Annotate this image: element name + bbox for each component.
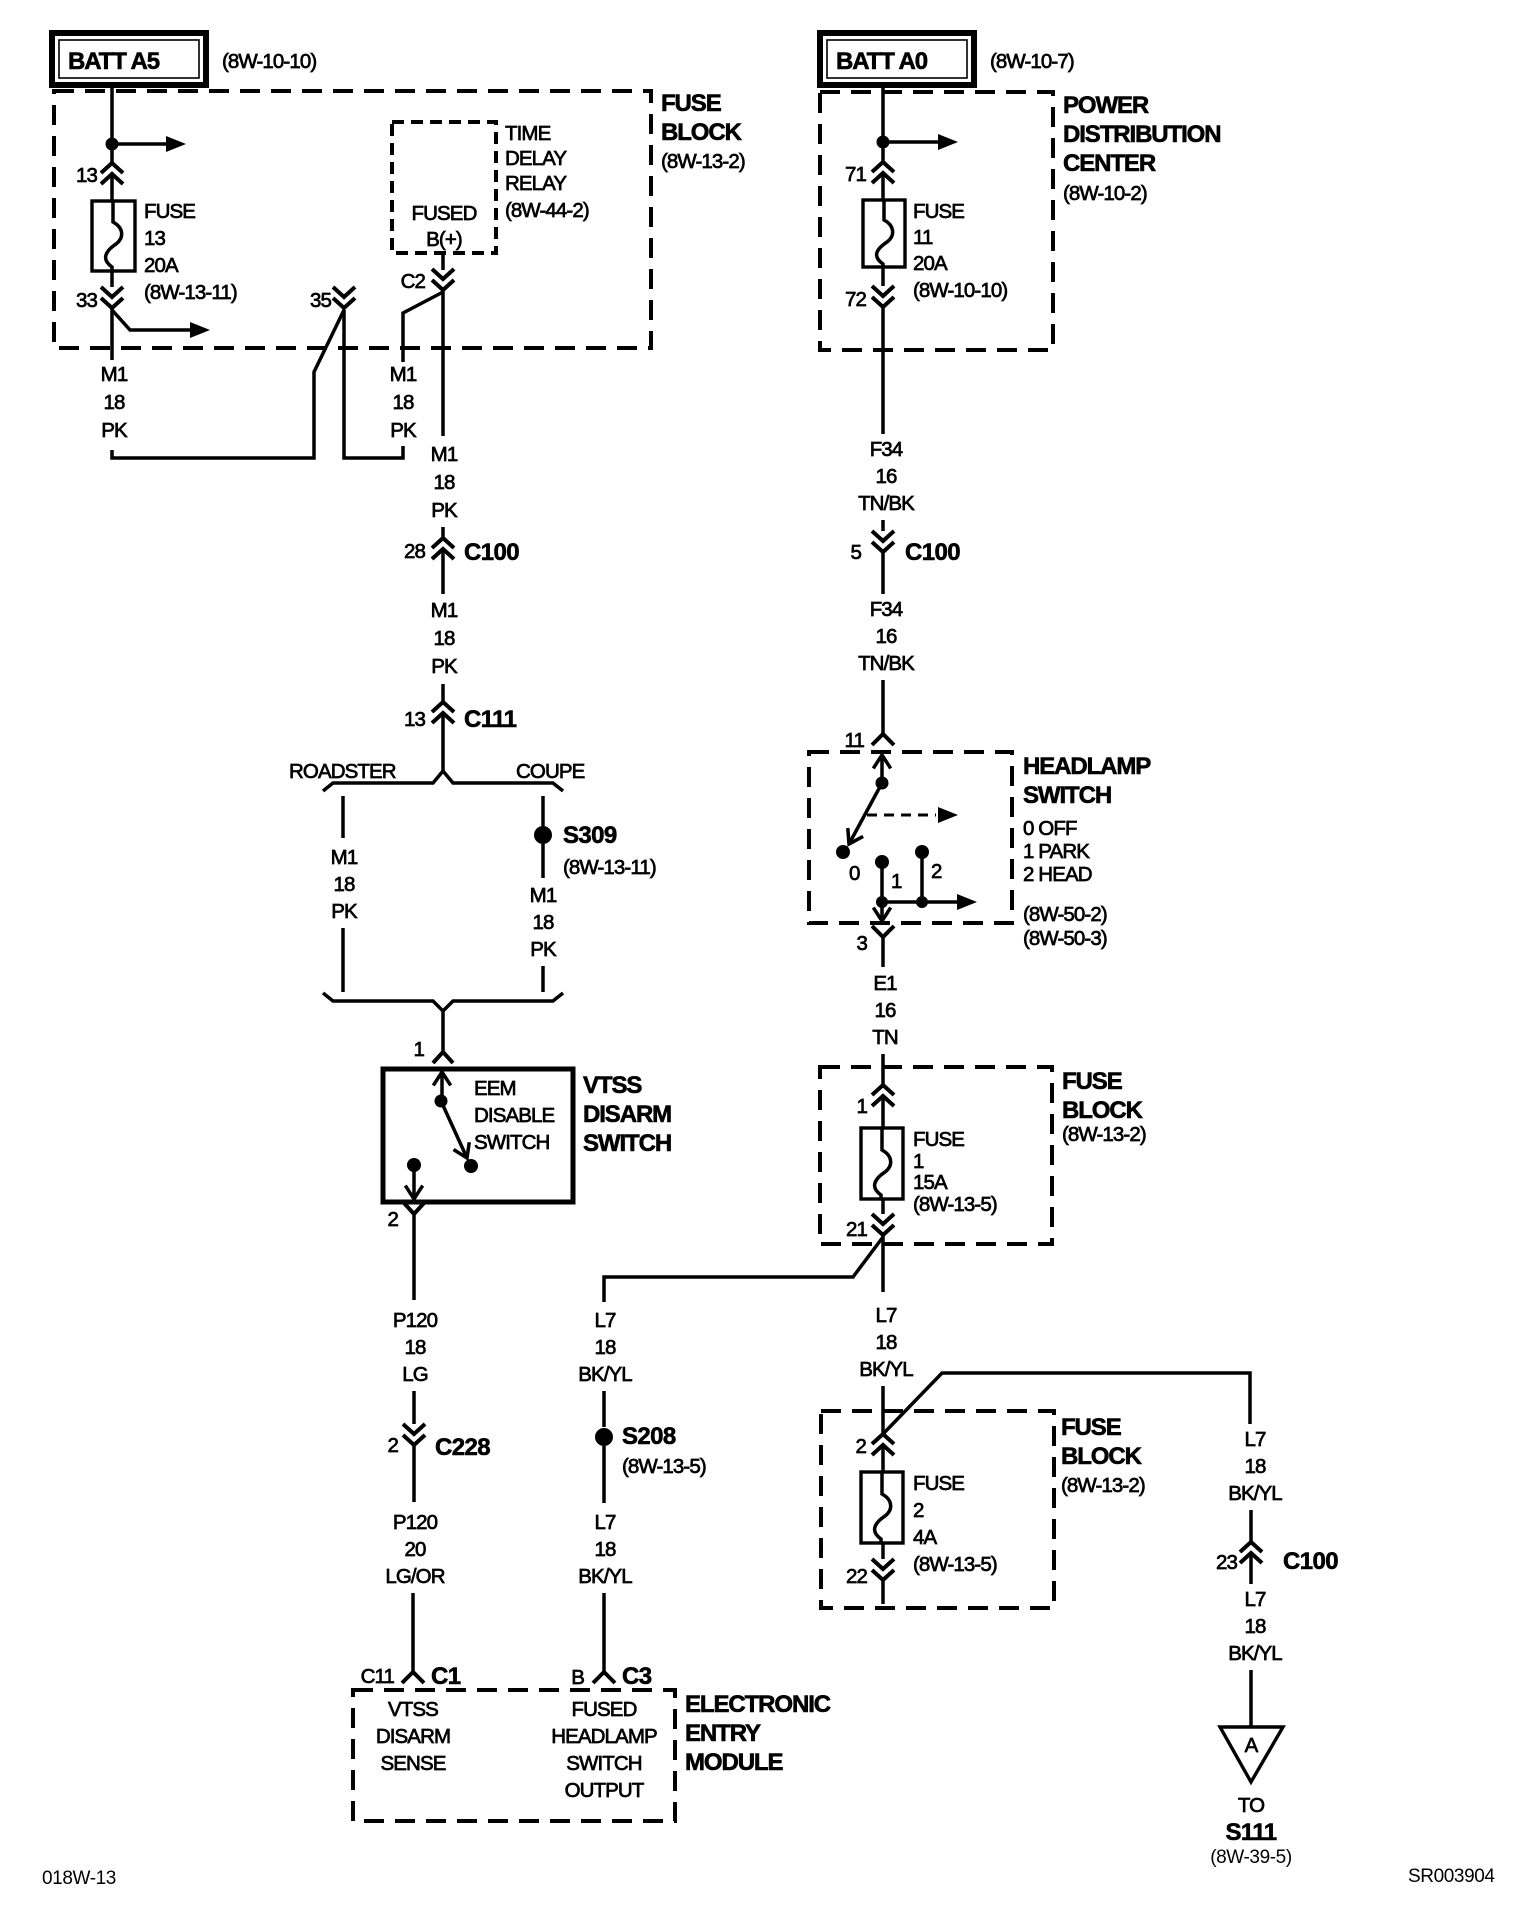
- svg-text:5: 5: [850, 541, 861, 564]
- fuse 2 value label: [913, 1472, 997, 1576]
- svg-text:ENTRY: ENTRY: [685, 1720, 761, 1747]
- pin 13 connector (fuse block cavity): [76, 163, 123, 187]
- wire label F34 16 TN/BK (upper): [858, 438, 915, 515]
- wire label L7 18 BK/YL (C100 to A): [1228, 1588, 1282, 1665]
- svg-text:23: 23: [1216, 1551, 1238, 1574]
- wire label M1 18 PK (roadster branch): [331, 846, 358, 923]
- svg-text:0: 0: [849, 862, 860, 885]
- svg-text:18: 18: [1244, 1615, 1266, 1638]
- svg-text:SWITCH: SWITCH: [474, 1131, 550, 1154]
- svg-text:TN: TN: [872, 1026, 898, 1049]
- split brace: [323, 771, 563, 791]
- fuse 11 20A: [863, 200, 905, 267]
- ROADSTER label: [289, 760, 396, 783]
- roadster branch wire M1 18 PK: [341, 796, 345, 838]
- wire into fuse 11: [881, 175, 885, 200]
- power distribution center dashed box: [820, 92, 1053, 350]
- svg-text:21: 21: [846, 1218, 868, 1241]
- svg-text:18: 18: [404, 1336, 426, 1359]
- fuse 13 20A: [92, 201, 135, 271]
- wire pin 21 down L7 18 BK/YL: [859, 1304, 913, 1381]
- svg-text:(8W-50-3): (8W-50-3): [1023, 927, 1107, 950]
- connector C111 (pin 13): [404, 702, 517, 733]
- svg-text:71: 71: [845, 163, 867, 186]
- svg-text:11: 11: [845, 729, 865, 752]
- svg-text:L7: L7: [594, 1511, 616, 1534]
- wire into C228: [412, 1391, 416, 1424]
- svg-text:2 HEAD: 2 HEAD: [1023, 863, 1092, 886]
- svg-text:18: 18: [875, 1331, 897, 1354]
- pin C11 connector fork at C1: [361, 1663, 461, 1690]
- svg-text:M1: M1: [431, 599, 458, 622]
- svg-text:S208: S208: [622, 1423, 676, 1450]
- svg-text:C2: C2: [401, 270, 426, 293]
- svg-text:(8W-13-5): (8W-13-5): [622, 1455, 706, 1478]
- wire label P120 20 LG/OR: [385, 1511, 444, 1588]
- svg-text:SWITCH: SWITCH: [583, 1130, 671, 1157]
- svg-text:DISTRIBUTION: DISTRIBUTION: [1063, 121, 1220, 148]
- svg-text:72: 72: [845, 288, 867, 311]
- svg-text:F34: F34: [870, 598, 903, 621]
- wire from BATT A0 down: [881, 85, 885, 161]
- MIDDLE-LEFT-SECTION: [289, 527, 671, 1672]
- svg-text:PK: PK: [331, 900, 358, 923]
- svg-text:C228: C228: [435, 1434, 490, 1461]
- svg-text:2: 2: [855, 1435, 866, 1458]
- TO S111 label: [1210, 1794, 1292, 1868]
- svg-text:18: 18: [103, 391, 125, 414]
- pin 1 connector: [856, 1085, 894, 1118]
- switch blade with arrow: [441, 1101, 469, 1158]
- wire label L7 18 BK/YL (right branch upper): [1228, 1428, 1282, 1505]
- wire S208 to C3 L7 18 BK/YL: [602, 1446, 606, 1503]
- connector C100 (pin 5): [850, 531, 960, 566]
- svg-text:FUSE: FUSE: [1062, 1068, 1123, 1095]
- wire into fuse 2: [881, 1447, 885, 1472]
- svg-text:20: 20: [404, 1538, 426, 1561]
- svg-text:B(+): B(+): [426, 228, 462, 251]
- wire into fuse 13: [110, 176, 114, 201]
- pin 35 connector: [310, 287, 355, 312]
- battery feed BATT A5 box: [52, 33, 206, 85]
- svg-text:ROADSTER: ROADSTER: [289, 760, 396, 783]
- svg-text:(8W-13-2): (8W-13-2): [1062, 1123, 1146, 1146]
- contact 2 wire to output: [920, 852, 924, 902]
- svg-text:TN/BK: TN/BK: [858, 492, 915, 515]
- svg-text:18: 18: [594, 1336, 616, 1359]
- RIGHT-MID-SECTION: [578, 752, 1151, 1672]
- svg-text:11: 11: [913, 226, 933, 249]
- entry arrow pin 11: [873, 755, 890, 777]
- svg-text:C100: C100: [905, 539, 960, 566]
- wire to off-page connector A: [1249, 1670, 1253, 1727]
- switch contact lower left with exit arrow: [405, 1158, 422, 1199]
- headlamp switch label: [1023, 753, 1151, 809]
- svg-text:BK/YL: BK/YL: [578, 1363, 632, 1386]
- wire fuse 13 to pin 33: [110, 271, 114, 287]
- svg-text:FUSE: FUSE: [913, 1472, 964, 1495]
- svg-text:(8W-13-5): (8W-13-5): [913, 1193, 997, 1216]
- svg-text:18: 18: [1244, 1455, 1266, 1478]
- svg-text:(8W-50-2): (8W-50-2): [1023, 903, 1107, 926]
- pin 71 connector: [845, 162, 894, 186]
- wire label L7 18 BK/YL (right branch lower): [1249, 1555, 1253, 1584]
- svg-text:18: 18: [594, 1538, 616, 1561]
- svg-text:1: 1: [856, 1095, 867, 1118]
- svg-text:EEM: EEM: [474, 1077, 516, 1100]
- svg-text:P120: P120: [393, 1309, 438, 1332]
- svg-text:PK: PK: [530, 938, 557, 961]
- svg-text:A: A: [1245, 1734, 1259, 1757]
- svg-text:(8W-10-2): (8W-10-2): [1063, 182, 1147, 205]
- switch contact upper: [435, 1095, 448, 1108]
- wire pin 21 straight down: [881, 1235, 885, 1292]
- coupe branch wire M1 18 PK: [541, 844, 545, 878]
- fuse 13 value label: [144, 200, 237, 304]
- svg-text:(8W-10-10): (8W-10-10): [913, 279, 1007, 302]
- svg-text:DISARM: DISARM: [583, 1101, 671, 1128]
- VTSS disarm switch box: [383, 1069, 573, 1202]
- svg-text:HEADLAMP: HEADLAMP: [551, 1725, 657, 1748]
- pin 2 connector fork: [387, 1203, 424, 1231]
- svg-text:35: 35: [310, 289, 332, 312]
- svg-text:FUSED: FUSED: [572, 1698, 637, 1721]
- EEM DISABLE SWITCH label: [474, 1077, 555, 1154]
- time delay relay label: [505, 122, 589, 222]
- svg-text:2: 2: [913, 1499, 924, 1522]
- svg-text:BLOCK: BLOCK: [1061, 1443, 1143, 1470]
- off-page connector A to S111: [1220, 1727, 1283, 1782]
- svg-text:LG/OR: LG/OR: [385, 1565, 444, 1588]
- svg-text:FUSE: FUSE: [144, 200, 195, 223]
- VTSS switch internal entry arrow: [433, 1072, 450, 1095]
- wire label E1 16 TN: [872, 972, 898, 1049]
- svg-text:TO: TO: [1238, 1794, 1264, 1817]
- BATT A5 reference label: [222, 50, 316, 73]
- svg-text:C1: C1: [431, 1663, 461, 1690]
- headlamp switch position legend: [1023, 817, 1092, 886]
- svg-text:VTSS: VTSS: [583, 1072, 642, 1099]
- coupe branch wire: [541, 796, 545, 826]
- wire pin 72 down F34 16 TN/BK: [881, 307, 885, 434]
- wire label L7 18 BK/YL (S208 to C3): [578, 1511, 632, 1588]
- wire C228 down P120 20 LG/OR: [412, 1445, 416, 1502]
- svg-text:BLOCK: BLOCK: [661, 119, 743, 146]
- svg-text:HEADLAMP: HEADLAMP: [1023, 753, 1151, 780]
- svg-text:C100: C100: [464, 539, 519, 566]
- wire to pin C11 of C1: [411, 1593, 415, 1672]
- power distribution center label: [1063, 92, 1220, 205]
- switch wiper blade with arrow: [848, 783, 882, 844]
- svg-text:018W-13: 018W-13: [42, 1868, 116, 1889]
- wire into fuse block pin 2: [881, 1386, 885, 1433]
- connector C100 (pin 28): [404, 538, 519, 566]
- BOTTOM-LEFT-SECTION: [353, 1663, 831, 1821]
- svg-text:FUSED: FUSED: [412, 202, 477, 225]
- svg-text:M1: M1: [390, 363, 417, 386]
- RIGHT-TOP-SECTION: [820, 33, 1220, 752]
- svg-text:0 OFF: 0 OFF: [1023, 817, 1077, 840]
- fuse block (left) label: [661, 90, 745, 173]
- svg-text:FUSE: FUSE: [913, 1128, 964, 1151]
- svg-text:PK: PK: [431, 655, 458, 678]
- fuse block (left) dashed box: [54, 91, 651, 348]
- svg-text:TN/BK: TN/BK: [858, 652, 915, 675]
- wire label M1 18 PK (C100 to C111): [431, 599, 458, 678]
- svg-text:C100: C100: [1283, 1548, 1338, 1575]
- pin B connector fork at C3: [571, 1663, 652, 1690]
- svg-text:2: 2: [387, 1208, 398, 1231]
- svg-text:BATT A0: BATT A0: [836, 48, 928, 75]
- svg-text:4A: 4A: [913, 1526, 938, 1549]
- contact 0: [836, 845, 860, 885]
- wire M1 18 PK from pin 33 down and over: [110, 308, 114, 360]
- wire label M1 18 PK (C2 wire): [431, 443, 458, 522]
- svg-text:33: 33: [76, 289, 98, 312]
- svg-text:(8W-10-10): (8W-10-10): [222, 50, 316, 73]
- wire to headlamp switch pin 11: [881, 680, 885, 734]
- svg-text:VTSS: VTSS: [388, 1698, 438, 1721]
- svg-text:(8W-39-5): (8W-39-5): [1210, 1847, 1292, 1868]
- svg-text:SWITCH: SWITCH: [566, 1752, 642, 1775]
- fuse block (right) label: [1062, 1068, 1146, 1146]
- svg-text:16: 16: [875, 465, 897, 488]
- wire to pin B of C3: [602, 1593, 606, 1672]
- svg-text:1 PARK: 1 PARK: [1023, 840, 1090, 863]
- svg-text:P120: P120: [393, 1511, 438, 1534]
- fuse block (bottom) label: [1061, 1414, 1145, 1497]
- svg-text:POWER: POWER: [1063, 92, 1149, 119]
- wire label L7 18 BK/YL (left branch): [578, 1309, 632, 1386]
- svg-text:FUSE: FUSE: [661, 90, 722, 117]
- svg-text:BK/YL: BK/YL: [578, 1565, 632, 1588]
- LEFT-TOP-SECTION: [52, 33, 745, 522]
- headlamp switch dashed box: [809, 752, 1012, 923]
- VTSS DISARM SWITCH label: [583, 1072, 671, 1157]
- svg-text:13: 13: [144, 227, 166, 250]
- svg-text:ELECTRONIC: ELECTRONIC: [685, 1691, 831, 1718]
- svg-text:M1: M1: [431, 443, 458, 466]
- fuse block (right) dashed box: [820, 1067, 1052, 1244]
- svg-text:DISARM: DISARM: [376, 1725, 450, 1748]
- wire label M1 18 PK (pin 33 wire): [101, 363, 128, 442]
- svg-text:BATT A5: BATT A5: [68, 48, 160, 75]
- pin 1 connector fork: [413, 1038, 453, 1063]
- svg-text:(8W-44-2): (8W-44-2): [505, 199, 589, 222]
- wire label M1 18 PK (pin 35 wire): [390, 363, 417, 442]
- RIGHT-BOTTOM-SECTION: [821, 1304, 1338, 1868]
- svg-text:18: 18: [433, 627, 455, 650]
- wire brace to VTSS switch pin 1: [441, 1011, 445, 1053]
- node junction with arrow (feed to other circuits): [877, 134, 959, 150]
- arrow branch from pin 33 (feed to other circuits): [112, 310, 210, 338]
- svg-text:SENSE: SENSE: [381, 1752, 446, 1775]
- svg-text:C11: C11: [361, 1665, 395, 1688]
- svg-text:BK/YL: BK/YL: [859, 1358, 913, 1381]
- pin 3 connector fork: [856, 926, 894, 955]
- svg-text:28: 28: [404, 540, 426, 563]
- exit arrow pin 3: [873, 902, 890, 921]
- node junction with arrow (feed to other circuits): [106, 136, 187, 152]
- svg-text:RELAY: RELAY: [505, 172, 567, 195]
- svg-text:13: 13: [76, 164, 98, 187]
- svg-text:BK/YL: BK/YL: [1228, 1642, 1282, 1665]
- svg-text:1: 1: [891, 870, 902, 893]
- roadster branch wire lower segment: [341, 928, 345, 992]
- wire C100 to headlamp switch F34 16 TN/BK: [881, 552, 885, 594]
- svg-text:SR003904: SR003904: [1408, 1866, 1495, 1887]
- wire pin 2 down P120 18 LG: [412, 1214, 416, 1300]
- pin 2 connector: [855, 1434, 894, 1458]
- time delay relay FUSED B(+) pin label: [412, 202, 477, 251]
- wire label M1 18 PK (coupe branch): [530, 884, 557, 961]
- pin 22 connector: [846, 1559, 894, 1588]
- contact 1: [875, 855, 902, 893]
- FUSED HEADLAMP SWITCH OUTPUT pin label: [551, 1698, 657, 1802]
- svg-text:2: 2: [931, 860, 942, 883]
- svg-text:PK: PK: [431, 499, 458, 522]
- svg-text:L7: L7: [1244, 1588, 1266, 1611]
- wire from BATT A5 down: [110, 85, 114, 162]
- svg-text:L7: L7: [594, 1309, 616, 1332]
- battery feed BATT A0 box: [820, 33, 974, 85]
- wire fuse 2 to pin 22: [881, 1543, 885, 1559]
- svg-text:L7: L7: [875, 1304, 897, 1327]
- pin 72 connector: [845, 286, 894, 311]
- wire label P120 18 LG: [393, 1309, 438, 1386]
- svg-text:LG: LG: [402, 1363, 428, 1386]
- wire into fuse block pin 1: [881, 1054, 885, 1085]
- fuse 11 value label: [913, 200, 1007, 302]
- wire into splice S208: [602, 1391, 606, 1427]
- wire pin 3 down E1 16 TN: [881, 954, 885, 967]
- connector C2: [401, 269, 454, 293]
- branch wire to C100 pin 23: [884, 1373, 1250, 1433]
- wire into C111: [441, 684, 445, 701]
- svg-text:18: 18: [392, 391, 414, 414]
- svg-text:(8W-13-11): (8W-13-11): [563, 856, 656, 879]
- svg-text:SWITCH: SWITCH: [1023, 782, 1111, 809]
- svg-text:20A: 20A: [144, 254, 179, 277]
- connector C100 (pin 23): [1216, 1542, 1338, 1575]
- svg-text:BLOCK: BLOCK: [1062, 1097, 1144, 1124]
- svg-text:2: 2: [387, 1434, 398, 1457]
- switch common contact: [876, 777, 889, 790]
- svg-text:18: 18: [333, 873, 355, 896]
- electronic entry module dashed box: [353, 1690, 675, 1821]
- svg-text:M1: M1: [331, 846, 358, 869]
- BATT A0 reference label: [990, 50, 1074, 73]
- wire relay to C2: [441, 253, 445, 270]
- svg-text:18: 18: [433, 471, 455, 494]
- wire fuse 1 to pin 21: [881, 1199, 885, 1214]
- svg-text:BK/YL: BK/YL: [1228, 1482, 1282, 1505]
- svg-text:COUPE: COUPE: [516, 760, 585, 783]
- svg-text:16: 16: [874, 999, 896, 1022]
- svg-text:CENTER: CENTER: [1063, 150, 1156, 177]
- svg-text:20A: 20A: [913, 252, 948, 275]
- output bus with arrow: [876, 894, 977, 910]
- pin 33 connector: [76, 287, 123, 312]
- wire from C2 down: [441, 290, 445, 436]
- fuse 2 4A: [861, 1472, 903, 1543]
- svg-text:(8W-13-2): (8W-13-2): [1061, 1474, 1145, 1497]
- ELECTRONIC ENTRY MODULE label: [685, 1691, 831, 1776]
- pin 21 connector: [846, 1214, 894, 1241]
- svg-text:16: 16: [875, 625, 897, 648]
- svg-text:OUTPUT: OUTPUT: [565, 1779, 645, 1802]
- wire M1 18 PK from pin 35 down and over to C2: [344, 292, 443, 458]
- svg-text:MODULE: MODULE: [685, 1749, 783, 1776]
- wire into C100 pin 5: [881, 520, 885, 531]
- wire to connector C100: [441, 527, 445, 539]
- svg-text:22: 22: [846, 1565, 868, 1588]
- wire into fuse 1: [881, 1098, 885, 1128]
- time delay relay dashed box: [392, 122, 496, 253]
- svg-text:C111: C111: [464, 706, 517, 733]
- splice S208: [595, 1423, 706, 1478]
- COUPE label: [516, 760, 585, 783]
- svg-text:C3: C3: [622, 1663, 652, 1690]
- fuse 1 value label: [913, 1128, 997, 1216]
- svg-text:3: 3: [856, 932, 867, 955]
- wire C100 to C111 labelled M1 18 PK: [441, 551, 445, 594]
- footer: [42, 1866, 1495, 1889]
- contact 2: [915, 845, 942, 883]
- switch contact lower right: [464, 1159, 478, 1173]
- wire stub below pin 22: [881, 1580, 885, 1604]
- wire label F34 16 TN/BK (lower): [858, 598, 915, 675]
- contact 1 wire to output: [880, 862, 884, 902]
- svg-text:M1: M1: [530, 884, 557, 907]
- svg-text:(8W-13-2): (8W-13-2): [661, 150, 745, 173]
- svg-text:DISABLE: DISABLE: [474, 1104, 555, 1127]
- headlamp switch sheet refs: [1023, 903, 1107, 950]
- svg-text:M1: M1: [101, 363, 128, 386]
- fuse 1 15A: [861, 1128, 903, 1199]
- svg-text:DELAY: DELAY: [505, 147, 567, 170]
- splice S309: [534, 822, 656, 879]
- svg-text:B: B: [571, 1666, 584, 1689]
- svg-text:S111: S111: [1225, 1819, 1276, 1846]
- svg-text:15A: 15A: [913, 1171, 948, 1194]
- svg-text:13: 13: [404, 708, 426, 731]
- wire into C100 pin 23: [1249, 1510, 1253, 1542]
- svg-text:FUSE: FUSE: [913, 200, 964, 223]
- svg-text:PK: PK: [101, 419, 128, 442]
- VTSS DISARM SENSE pin label: [376, 1698, 450, 1775]
- merge brace: [323, 993, 563, 1011]
- svg-text:1: 1: [913, 1150, 924, 1173]
- svg-text:(8W-13-5): (8W-13-5): [913, 1553, 997, 1576]
- svg-text:18: 18: [532, 911, 554, 934]
- wire C111 to split brace: [441, 715, 445, 771]
- branch wire from pin 21 to EEM (L7): [604, 1237, 883, 1302]
- wire pin 33 routed to pin 35: [112, 310, 344, 458]
- pin 11 connector fork: [845, 729, 894, 752]
- svg-text:TIME: TIME: [505, 122, 551, 145]
- svg-text:L7: L7: [1244, 1428, 1266, 1451]
- svg-text:E1: E1: [873, 972, 897, 995]
- svg-text:FUSE: FUSE: [1061, 1414, 1122, 1441]
- fuse block (bottom) dashed box: [821, 1411, 1054, 1608]
- svg-text:F34: F34: [870, 438, 903, 461]
- svg-text:PK: PK: [390, 419, 417, 442]
- svg-text:(8W-10-7): (8W-10-7): [990, 50, 1074, 73]
- coupe branch wire lower segment: [541, 966, 545, 992]
- svg-text:S309: S309: [563, 822, 617, 849]
- svg-text:1: 1: [413, 1038, 424, 1061]
